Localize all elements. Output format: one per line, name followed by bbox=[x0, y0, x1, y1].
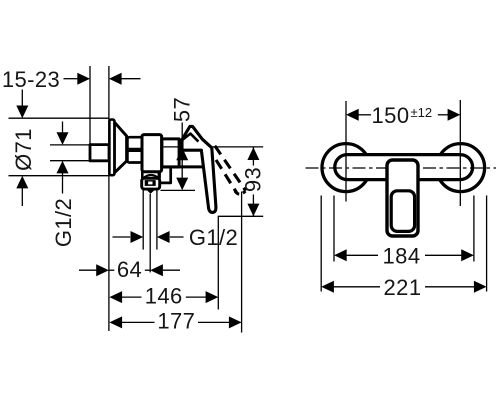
arrow 93 down bbox=[247, 204, 259, 217]
lever open position dashed bbox=[205, 142, 246, 195]
svg-text:G1/2: G1/2 bbox=[51, 198, 76, 247]
dim 93 shafts bbox=[252, 147, 254, 165]
svg-text:146: 146 bbox=[145, 283, 183, 308]
dim 221 line bbox=[334, 286, 380, 288]
valve body bbox=[142, 135, 162, 172]
arrow 221 left bbox=[321, 281, 334, 293]
arrow stub top bbox=[57, 132, 69, 145]
escutcheon flange bbox=[109, 120, 114, 176]
wall stub bbox=[90, 145, 109, 161]
side view faucet body bbox=[90, 120, 204, 190]
wall flange left bbox=[322, 144, 370, 192]
outlet collar dome bbox=[143, 175, 159, 178]
union nut ring lower bbox=[127, 151, 142, 163]
extension line stub end bbox=[89, 66, 91, 145]
svg-text:150: 150 bbox=[372, 103, 410, 128]
arrow 150 left bbox=[346, 109, 359, 121]
arrow 93 up bbox=[247, 147, 259, 160]
arrow G1/2 left bbox=[131, 231, 144, 243]
union nut ring upper bbox=[127, 137, 142, 149]
dim 184 extensions bbox=[333, 196, 335, 262]
dim O71 arrow shafts bbox=[21, 90, 23, 107]
arrow stub bottom bbox=[57, 161, 69, 174]
handle grip front bbox=[391, 191, 414, 232]
dim 221 extensions bbox=[320, 196, 322, 292]
stub thread ref lines bbox=[50, 144, 89, 146]
arrow G1/2 right bbox=[157, 231, 170, 243]
dim O71 extension top bbox=[9, 117, 109, 119]
arrow 64 left bbox=[96, 264, 109, 276]
arrow 15-23 right bbox=[109, 73, 122, 85]
outlet nipple line right bbox=[156, 189, 158, 249]
dim G1/2 outlet line bbox=[113, 236, 131, 238]
arrow 64 right bbox=[150, 264, 163, 276]
axis centerline left view bbox=[163, 146, 263, 148]
cartridge hub bbox=[162, 139, 179, 167]
outlet collar bbox=[142, 172, 159, 179]
dim 57 bottom reference bbox=[161, 189, 196, 191]
svg-text:57: 57 bbox=[170, 97, 195, 122]
wall flange right bbox=[437, 144, 485, 192]
arrow 177 right bbox=[229, 316, 242, 328]
dim 57 arrows bbox=[176, 148, 188, 161]
dim 177 line bbox=[122, 321, 155, 323]
stub dim shafts bbox=[62, 122, 64, 133]
arrow 150 right bbox=[448, 109, 461, 121]
lower step under cartridge bbox=[159, 167, 171, 183]
svg-text:177: 177 bbox=[157, 309, 195, 334]
vertical centerline right / 150 ext bbox=[459, 100, 461, 206]
dim 57 shaft bbox=[181, 123, 183, 189]
outlet centerline bbox=[149, 194, 151, 273]
horizontal centerline bbox=[306, 167, 497, 169]
lever handle bbox=[182, 126, 216, 212]
hub bottom ledge bbox=[162, 165, 204, 168]
outlet nipple line left bbox=[142, 189, 144, 249]
escutcheon cone bbox=[114, 122, 126, 173]
arrow 146 right bbox=[206, 291, 219, 303]
vertical centerline left / 150 ext bbox=[345, 101, 347, 202]
svg-text:Ø71: Ø71 bbox=[11, 128, 36, 171]
arrow 177 left bbox=[109, 316, 122, 328]
outlet wedge tip bbox=[146, 190, 155, 194]
svg-text:184: 184 bbox=[383, 243, 421, 268]
svg-text:G1/2: G1/2 bbox=[189, 225, 238, 250]
dim O71 extension bottom bbox=[9, 175, 109, 177]
svg-text:221: 221 bbox=[384, 275, 422, 300]
arrow O71 top bbox=[16, 106, 28, 119]
dim 64 line bbox=[79, 269, 96, 271]
arrow 15-23 left bbox=[77, 73, 90, 85]
svg-text:±12: ±12 bbox=[411, 105, 433, 120]
svg-text:15-23: 15-23 bbox=[2, 67, 60, 92]
arrow O71 bottom bbox=[16, 176, 28, 189]
dim 177 extension bbox=[241, 192, 243, 333]
dim 150 line bbox=[359, 114, 372, 116]
arrow 146 left bbox=[109, 291, 122, 303]
mixer bar body bbox=[335, 155, 473, 180]
dim 146 line bbox=[122, 296, 142, 298]
outlet inner square bbox=[145, 180, 156, 186]
wall line bbox=[108, 66, 110, 331]
dim 93 bottom ref and 146 extension bbox=[218, 216, 263, 309]
outlet nut bbox=[142, 178, 160, 189]
arrow 184 left bbox=[334, 249, 347, 261]
arrow 221 right bbox=[474, 281, 487, 293]
svg-text:64: 64 bbox=[117, 257, 142, 282]
dim 184 line bbox=[347, 254, 379, 256]
arrow 184 right bbox=[461, 249, 474, 261]
dim 15-23 bbox=[64, 78, 78, 80]
lever inner ridge bbox=[181, 134, 198, 142]
handle hub front bbox=[387, 160, 418, 236]
